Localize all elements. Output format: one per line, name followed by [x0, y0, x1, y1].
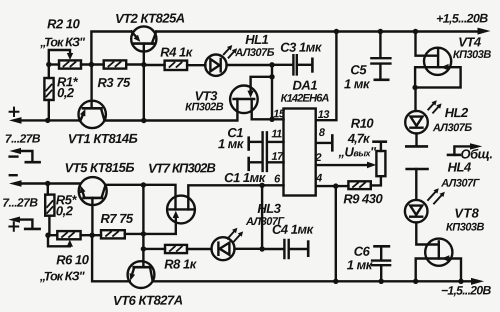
svg-text:К142ЕН6А: К142ЕН6А — [281, 92, 330, 104]
svg-text:HL1: HL1 — [245, 32, 268, 47]
svg-text:11: 11 — [271, 128, 282, 140]
terminal X4 connector (lower bracket) — [8, 217, 39, 231]
svg-text:КП302В: КП302В — [185, 101, 224, 113]
minus polarity sign (mid input) — [10, 174, 17, 176]
svg-text:HL3: HL3 — [257, 201, 281, 216]
terminal X3 connector (upper bracket) — [9, 148, 39, 162]
node rail/VT4 — [413, 29, 418, 34]
terminal X1 + input arrow — [9, 117, 22, 124]
svg-text:С3 1мк: С3 1мк — [280, 39, 323, 54]
svg-text:17: 17 — [271, 151, 284, 163]
node R5/- junction — [45, 181, 50, 186]
LED HL1 AL307B — [205, 54, 272, 75]
svg-text:„Uвых": „Uвых" — [337, 144, 377, 159]
svg-text:0,2: 0,2 — [56, 203, 74, 218]
resistor R9 430 — [348, 181, 370, 189]
wire VT3 drain to DA1 pin 15 — [252, 99, 284, 119]
wire DA1 pin 8 stub — [316, 136, 333, 151]
R6 wiper arrowhead — [67, 240, 73, 247]
wire VT3 gate lead — [251, 77, 272, 91]
resistor R3 75 — [104, 60, 144, 68]
svg-text:7...27В: 7...27В — [2, 195, 38, 209]
wire VT7 drain to DA1 pin 6 — [188, 185, 283, 209]
svg-text:6: 6 — [274, 173, 281, 185]
svg-text:R9 430: R9 430 — [343, 191, 383, 206]
VT2 emitter arrowhead — [134, 35, 141, 42]
resistor R1 0,2 — [44, 65, 53, 121]
node rail/C6 — [379, 279, 384, 284]
VT7 gate arrowhead — [173, 211, 179, 218]
svg-text:VT2 КТ825А: VT2 КТ825А — [115, 10, 185, 25]
wire VT1 base riser — [90, 65, 92, 109]
transistor VT6 KT827A — [128, 261, 155, 288]
wire VT6 emitter riser — [92, 235, 130, 281]
node VT4 box lower left — [412, 85, 417, 90]
+ polarity sign (top input) — [10, 108, 19, 116]
capacitor C6 1mk — [372, 246, 390, 281]
node R1/R2 junction — [46, 62, 51, 67]
svg-text:R6 10: R6 10 — [56, 252, 90, 267]
capacitor C1 on pin 11 — [249, 132, 284, 150]
HL1 emission arrows — [224, 45, 237, 58]
transistor VT1 KT814B — [79, 101, 106, 128]
svg-text:„Ток КЗ": „Ток КЗ" — [39, 35, 86, 49]
capacitor C2 on pin 17 — [249, 153, 284, 171]
resistor R7 75 — [92, 230, 143, 238]
transistor VT8 KP303V — [416, 239, 461, 282]
wire DA1 pin 4 — [316, 185, 349, 187]
node pin4/riser — [333, 183, 338, 188]
HL4 emission arrows — [428, 188, 445, 203]
wire + input rail — [20, 119, 79, 121]
VT8 gate arrowhead — [442, 255, 450, 262]
top rail output arrowhead — [478, 28, 491, 35]
resistor R6 10 (trimmer) — [48, 231, 92, 239]
HL3 emission arrows — [228, 228, 244, 242]
node R2/R3 junction — [89, 62, 94, 67]
svg-text:1 мк: 1 мк — [347, 257, 374, 272]
svg-text:VT5 КТ815Б: VT5 КТ815Б — [65, 160, 135, 175]
svg-text:1 мк: 1 мк — [218, 136, 245, 151]
wire VT7 gate lead — [143, 217, 175, 234]
VT6 emitter arrowhead — [130, 273, 136, 281]
node R6/R7/VT5 base junction — [89, 233, 94, 238]
svg-text:VT1 КТ814Б: VT1 КТ814Б — [68, 131, 138, 146]
wire riser to VT2 emitter — [91, 32, 131, 65]
svg-text:R4 1к: R4 1к — [160, 44, 194, 59]
wire DA1 pin 2 Uvyh arrow — [316, 162, 377, 169]
svg-text:R10: R10 — [351, 116, 375, 131]
svg-text:7...27В: 7...27В — [5, 131, 41, 145]
R2 wiper arrowhead — [67, 53, 73, 60]
svg-text:„Ток КЗ": „Ток КЗ" — [39, 269, 86, 283]
wire VT2 base to lower wire — [143, 44, 145, 121]
VT4 gate arrowhead — [441, 64, 449, 71]
LED HL4 AL307G — [405, 200, 439, 245]
svg-text:1 мк: 1 мк — [344, 76, 371, 91]
IC DA1 K142EN6A — [284, 109, 316, 196]
transistor VT4 KP303V — [415, 32, 461, 88]
node HL1/C3/VT3 junction — [269, 62, 274, 67]
svg-text:R2 10: R2 10 — [47, 16, 81, 31]
wire top rail +1,5..20V — [156, 30, 478, 32]
transistor VT3 KP302V — [230, 86, 258, 114]
resistor R2 10 (trimmer) — [49, 60, 104, 68]
VT3 gate arrowhead — [247, 91, 253, 98]
node rail/pin13 riser — [334, 29, 339, 34]
node R1/+ junction — [45, 118, 50, 123]
svg-text:−1,5...20В: −1,5...20В — [441, 283, 492, 297]
VT1 emitter arrowhead — [80, 109, 85, 117]
VT5 emitter arrowhead — [80, 186, 86, 194]
svg-text:8: 8 — [319, 127, 326, 139]
svg-text:VT4: VT4 — [458, 34, 482, 49]
svg-text:13: 13 — [318, 109, 330, 121]
capacitor C3 1mk — [272, 55, 312, 74]
svg-text:С5: С5 — [350, 62, 367, 77]
svg-text:HL4: HL4 — [448, 159, 472, 174]
svg-text:АЛ307Г: АЛ307Г — [440, 177, 481, 189]
node rail/pin4 riser — [333, 279, 338, 284]
node VT2 riser on VT1 wire — [141, 118, 146, 123]
svg-text:R8 1к: R8 1к — [164, 256, 198, 271]
node pin15 junction — [269, 117, 274, 122]
wire DA1 pin13 riser — [316, 32, 337, 121]
resistor R8 1k — [143, 245, 211, 253]
svg-text:КП303В: КП303В — [453, 49, 492, 61]
svg-text:VT6 КТ827А: VT6 КТ827А — [113, 292, 183, 307]
wire bottom rail -1,5..20V — [153, 280, 472, 282]
capacitor C5 1mk — [371, 32, 390, 80]
svg-text:4: 4 — [315, 172, 322, 184]
capacitor C4 1mk — [262, 240, 308, 258]
node riser/R8 junction — [141, 246, 146, 251]
resistor R4 1k — [144, 61, 206, 70]
node VT3 gate branch — [269, 74, 274, 79]
LED HL2 AL307B — [405, 88, 428, 147]
svg-text:2: 2 — [314, 152, 321, 164]
wire riser HL1 node to pin15 — [271, 65, 273, 120]
svg-text:0,2: 0,2 — [57, 85, 75, 100]
wire R6 wiper loop — [48, 235, 70, 246]
wire HL3 riser — [261, 185, 263, 249]
node R5/R6 junction — [45, 233, 50, 238]
transistor VT7 KP302V — [167, 196, 195, 224]
node pin6/HL3 riser — [259, 183, 264, 188]
resistor R10 4,7k — [371, 142, 386, 186]
svg-text:+1,5...20В: +1,5...20В — [436, 11, 488, 25]
svg-text:HL2: HL2 — [445, 105, 469, 120]
node riser/R7 junction — [141, 231, 146, 236]
svg-text:VT7 КП302В: VT7 КП302В — [148, 160, 215, 175]
wire - input rail — [20, 182, 80, 184]
node rail/C5 — [378, 29, 383, 34]
wire HL4 top stub — [407, 169, 428, 200]
node rail/VT8 left — [413, 279, 418, 284]
HL2 emission arrows — [428, 100, 441, 113]
wire VT1 collector to VT3 source — [106, 99, 238, 121]
svg-text:С4 1мк: С4 1мк — [272, 222, 315, 237]
svg-text:С1 1мк: С1 1мк — [224, 170, 267, 185]
transistor VT5 KT815B — [79, 177, 107, 205]
node riser on VT5 wire — [141, 182, 146, 187]
node rail/VT8 right — [458, 279, 463, 284]
transistor VT2 KT825A — [131, 26, 156, 51]
terminal Obshch (common) arrow — [448, 143, 482, 155]
svg-text:R7 75: R7 75 — [100, 211, 134, 226]
svg-text:15: 15 — [273, 108, 286, 120]
terminal X2 - input arrow — [9, 180, 22, 187]
wire pin4 riser to bottom rail — [335, 186, 337, 281]
wire R2 wiper loop — [49, 50, 70, 65]
wire center riser VT6 base — [142, 185, 144, 267]
LED HL3 AL307G — [212, 237, 263, 260]
svg-text:R3 75: R3 75 — [97, 75, 131, 90]
svg-text:DA1: DA1 — [292, 78, 317, 93]
node R3/R4/VT2 base junction — [141, 62, 146, 67]
wire VT5 collector to VT7 — [105, 185, 175, 210]
svg-text:АЛ307Б: АЛ307Б — [234, 47, 275, 59]
wire VT5 base riser — [91, 198, 93, 235]
svg-text:КП303В: КП303В — [446, 221, 485, 233]
node HL3/C4 junction — [259, 246, 264, 251]
svg-text:АЛ307Б: АЛ307Б — [432, 122, 473, 134]
svg-text:VT8: VT8 — [454, 205, 479, 220]
bottom rail output arrowhead — [471, 278, 484, 285]
resistor R5 0,2 — [45, 184, 54, 236]
